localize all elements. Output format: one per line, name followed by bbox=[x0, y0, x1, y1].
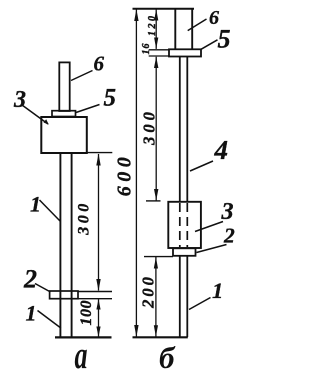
svg-text:6: 6 bbox=[94, 52, 105, 76]
label 6 (left) bbox=[71, 52, 105, 81]
svg-text:100: 100 bbox=[78, 300, 95, 326]
rod 1 (left figure lower shaft) bbox=[60, 153, 71, 338]
label 5 (left) bbox=[76, 85, 116, 113]
label 2 (left) bbox=[23, 265, 51, 294]
svg-text:1: 1 bbox=[212, 278, 223, 303]
box 3 (left figure head block) bbox=[41, 117, 87, 153]
svg-text:600: 600 bbox=[114, 153, 136, 197]
extension line box bottom (left) bbox=[87, 152, 112, 154]
dimension 100 (left) bbox=[78, 299, 101, 337]
label 3 (right) bbox=[195, 199, 234, 232]
bottom end line (left figure) bbox=[55, 336, 112, 338]
flange 5 (left figure collar plate) bbox=[52, 111, 76, 117]
svg-text:300: 300 bbox=[140, 108, 159, 146]
label 1 (left, upper) bbox=[30, 191, 61, 221]
dimension 120 (right top) bbox=[147, 9, 158, 49]
dimension 600 (right overall) bbox=[114, 9, 139, 337]
label 5 (right) bbox=[201, 25, 231, 54]
svg-text:а: а bbox=[75, 335, 88, 375]
extension tick box top (right) bbox=[146, 200, 161, 202]
dimension 300 (right) bbox=[140, 57, 159, 201]
svg-text:300: 300 bbox=[76, 200, 93, 236]
hidden rod lines inside box (dashed) bbox=[180, 203, 188, 247]
box 3 (right figure sleeve) bbox=[168, 202, 201, 248]
dimension 200 (right) bbox=[139, 257, 159, 337]
svg-text:1: 1 bbox=[26, 301, 37, 326]
svg-text:16: 16 bbox=[141, 43, 152, 55]
label 3 (left) with leader arrow bbox=[13, 87, 49, 125]
svg-text:2: 2 bbox=[23, 265, 37, 294]
extension line flange2 bottom (right) bbox=[144, 256, 173, 258]
label 4 (right) bbox=[190, 135, 228, 171]
svg-text:200: 200 bbox=[139, 274, 158, 309]
label 1 (left, lower) bbox=[26, 301, 61, 329]
svg-text:б: б bbox=[159, 340, 176, 375]
svg-text:4: 4 bbox=[214, 135, 229, 165]
rod 6 (left figure top bar) bbox=[59, 62, 69, 111]
extension line flange2 top (left) bbox=[78, 291, 112, 293]
extension line flange2 bottom (left) bbox=[78, 298, 112, 300]
label 6 (right) bbox=[188, 7, 219, 31]
flange 2 (right figure lower collar) bbox=[173, 248, 196, 256]
svg-text:2: 2 bbox=[223, 224, 235, 248]
flange 2 (left figure lower collar) bbox=[50, 291, 78, 299]
bottom end line (right figure) bbox=[133, 336, 188, 338]
rod 1 (right figure lower shaft) bbox=[180, 256, 188, 337]
svg-text:1: 1 bbox=[30, 191, 41, 216]
svg-text:3: 3 bbox=[13, 87, 26, 113]
dimension 300 (left) bbox=[76, 154, 101, 292]
top end line (right figure) bbox=[133, 8, 195, 10]
extension lines flange5 (right) bbox=[149, 49, 169, 51]
label 1 (right) bbox=[189, 278, 223, 310]
flange 5 (right figure collar plate) bbox=[169, 49, 201, 56]
rod 4 (right figure middle shaft) bbox=[180, 57, 188, 202]
rod 6 (right figure top section) bbox=[175, 9, 192, 50]
svg-text:5: 5 bbox=[104, 85, 117, 112]
svg-text:120: 120 bbox=[147, 14, 158, 37]
label 2 (right) bbox=[197, 224, 236, 253]
svg-text:5: 5 bbox=[218, 25, 231, 54]
